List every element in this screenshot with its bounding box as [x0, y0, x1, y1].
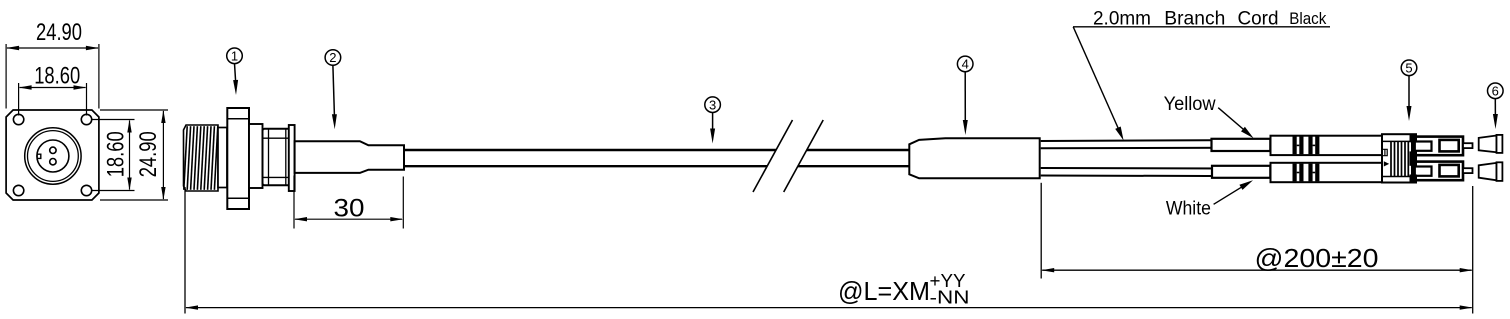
svg-text:@L=XM: @L=XM	[838, 276, 930, 306]
strain relief boot	[295, 141, 404, 173]
svg-text:24.90: 24.90	[135, 131, 162, 177]
dimension 24.90 vertical right	[100, 110, 168, 200]
svg-text:4: 4	[962, 57, 969, 72]
connector body section	[249, 124, 263, 188]
threaded coupling nut (threads)	[184, 125, 219, 191]
flange front view square body	[6, 110, 99, 200]
svg-text:1: 1	[231, 48, 238, 63]
svg-text:@200±20: @200±20	[1255, 243, 1379, 273]
dimension @L=XM+YY-NN	[185, 187, 1473, 314]
callout 4	[957, 56, 973, 135]
thread relief step	[218, 128, 227, 188]
duplex clip housing	[1382, 134, 1416, 182]
upper ferrule	[1463, 143, 1473, 148]
flange bolt holes (4x)	[13, 114, 91, 195]
upper dust cap	[1479, 135, 1503, 153]
svg-text:-NN: -NN	[930, 288, 970, 308]
callout 5	[1401, 60, 1417, 121]
callout 1	[227, 48, 243, 95]
lower ferrule	[1463, 168, 1473, 173]
dimension 24.90 horizontal top	[6, 19, 99, 108]
yellow branch cord	[1041, 140, 1271, 148]
upper LC connector body	[1414, 137, 1463, 156]
svg-text:3: 3	[709, 97, 716, 112]
svg-text:Black: Black	[1289, 9, 1326, 28]
contact pins (2x)	[50, 147, 56, 165]
washer	[289, 125, 295, 191]
label White with leader	[1166, 180, 1253, 219]
svg-text:5: 5	[1405, 60, 1412, 75]
callout 3	[705, 97, 721, 144]
upper crimp sleeve	[1212, 139, 1271, 151]
white branch cord	[1041, 168, 1271, 176]
connector mounting flange	[227, 108, 249, 209]
lower LC boot	[1271, 163, 1383, 182]
callout 6	[1488, 83, 1504, 129]
svg-text:Yellow: Yellow	[1164, 94, 1216, 115]
fanout splitter body	[909, 138, 1039, 178]
cable break mark	[753, 120, 823, 192]
svg-text:6: 6	[1492, 83, 1499, 98]
connector barrel circles	[25, 128, 81, 184]
dimension @200±20	[1041, 183, 1473, 314]
lower dust cap	[1479, 162, 1503, 181]
svg-text:18.60: 18.60	[34, 63, 80, 90]
main round cable	[404, 150, 909, 166]
label Yellow with leader	[1164, 94, 1254, 138]
key notch	[37, 154, 41, 158]
svg-text:18.60: 18.60	[103, 131, 130, 177]
svg-text:White: White	[1166, 199, 1211, 220]
upper LC boot	[1271, 136, 1383, 155]
dimension 30	[294, 176, 403, 229]
callout 2	[325, 50, 341, 130]
svg-text:24.90: 24.90	[36, 19, 82, 46]
lower LC connector body	[1414, 162, 1463, 181]
svg-text:2: 2	[329, 50, 336, 65]
dimension 18.60 horizontal	[19, 63, 87, 116]
hex backnut	[263, 129, 291, 185]
svg-text:30: 30	[334, 194, 365, 222]
lower crimp sleeve	[1212, 166, 1270, 178]
latch tabs	[1410, 134, 1418, 182]
dimension 18.60 vertical right	[92, 120, 135, 191]
housing latch bar	[1411, 138, 1416, 180]
label 2.0mm Branch Cord Black with leader	[1073, 9, 1330, 141]
